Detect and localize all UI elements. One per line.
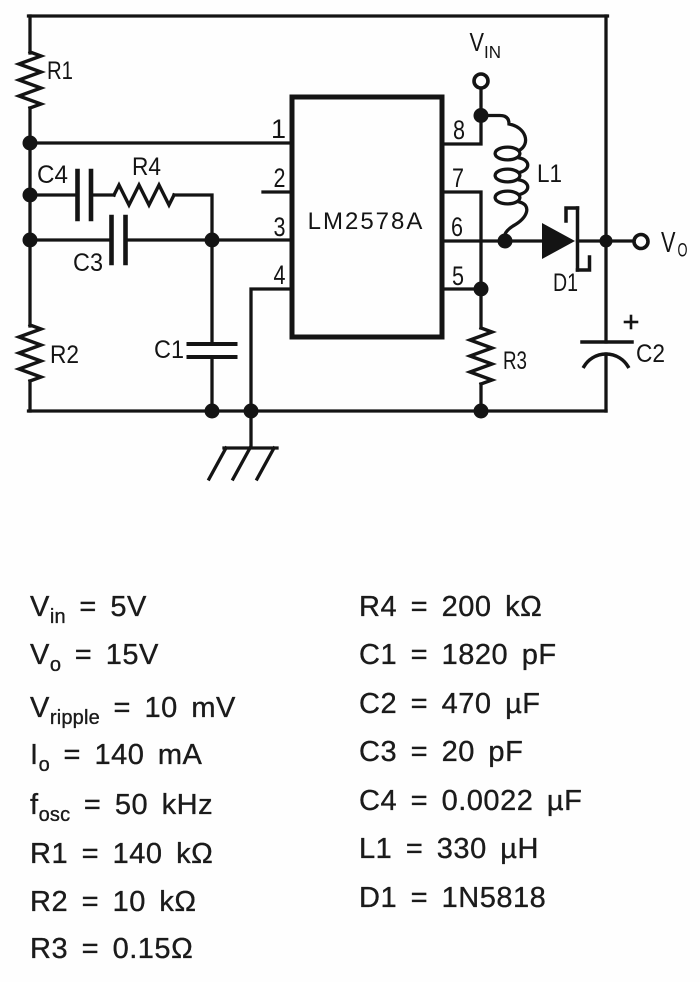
wire: bottom rail xyxy=(29,409,607,412)
svg-text:R3: R3 xyxy=(503,347,527,375)
svg-text:LM2578A: LM2578A xyxy=(308,208,425,235)
svg-text:C2: C2 xyxy=(636,340,665,368)
svg-text:C3: C3 xyxy=(73,249,103,277)
svg-text:C1: C1 xyxy=(154,336,184,364)
resistor R3 xyxy=(479,289,482,328)
node: junction diode / right rail / Vo xyxy=(600,235,613,248)
resistor R2 xyxy=(19,325,41,381)
wire: pin 4 to ground rail xyxy=(251,289,290,411)
svg-text:6: 6 xyxy=(451,212,463,242)
wire: pin 8 to Vin node xyxy=(444,115,481,144)
resistor R4 xyxy=(114,185,174,205)
node: junction R3 / bottom rail xyxy=(474,404,489,419)
wire: left rail C4 node to C3 node xyxy=(28,195,31,240)
node: junction R1/pin1 xyxy=(23,136,38,151)
ground xyxy=(249,411,252,447)
svg-text:8: 8 xyxy=(453,115,465,145)
svg-text:1: 1 xyxy=(271,114,286,144)
svg-text:3: 3 xyxy=(274,212,286,242)
inductor L1 xyxy=(481,116,528,241)
node: junction C1 / bottom rail xyxy=(205,404,220,419)
capacitor C2 (polarized) xyxy=(582,340,632,344)
resistor R1 xyxy=(19,52,41,108)
wire: left rail C3 node to R2 xyxy=(28,240,31,326)
svg-text:7: 7 xyxy=(452,163,464,193)
wire: top rail xyxy=(29,14,608,17)
node: junction Vin / pin8 / L1 xyxy=(474,108,489,123)
wire: R2 bottom to bottom rail xyxy=(28,381,31,411)
wire: pin 2 stub xyxy=(263,190,292,193)
capacitor C3 xyxy=(30,238,109,241)
svg-text:C4: C4 xyxy=(37,161,68,189)
svg-text:R2: R2 xyxy=(50,341,79,369)
capacitor C4 xyxy=(30,193,75,196)
wire: R1 bottom to feedback node xyxy=(28,108,31,143)
terminal VO xyxy=(606,239,633,242)
svg-text:V: V xyxy=(470,27,485,57)
wire: pin 1 feedback line xyxy=(30,141,290,144)
wire: pin 6 to diode xyxy=(444,239,542,242)
wire: left rail node to C4 node xyxy=(28,143,31,195)
node: junction L1 / pin 6 xyxy=(498,234,513,249)
node: junction pin4 / ground / bottom rail xyxy=(244,404,259,419)
svg-text:2: 2 xyxy=(274,163,286,193)
terminal VIN xyxy=(474,74,488,88)
value list: right column xyxy=(359,590,542,624)
svg-text:V: V xyxy=(661,227,676,259)
svg-text:O: O xyxy=(678,241,688,262)
wire: pin 5 xyxy=(444,287,481,290)
node: junction left rail / C4 xyxy=(23,188,38,203)
svg-text:5: 5 xyxy=(452,261,464,291)
wire: right rail Vo node to C2 xyxy=(604,241,607,342)
node: junction pin5 / pin7 wire / R3 xyxy=(474,282,489,297)
svg-text:IN: IN xyxy=(484,42,501,62)
IC U1 LM2578A (regulator body) xyxy=(292,97,442,337)
wire: right rail top to Vo node xyxy=(604,16,607,241)
value list: left column xyxy=(30,590,147,624)
svg-text:R4: R4 xyxy=(132,153,161,181)
wire: R4 to corner down to C3 node xyxy=(174,195,212,240)
diode D1 (schottky) xyxy=(542,223,575,259)
wire: pin 7 down to pin 5 xyxy=(444,192,481,289)
svg-text:D1: D1 xyxy=(553,269,578,297)
node: junction left rail / C3 row xyxy=(23,233,38,248)
wire: left rail top to R1 xyxy=(28,16,31,53)
capacitor C1 xyxy=(210,240,213,344)
svg-text:R1: R1 xyxy=(47,57,73,85)
node: junction C3/R4/C1 xyxy=(205,233,220,248)
svg-text:L1: L1 xyxy=(537,160,562,188)
wire: C3 node to IC pin 3 xyxy=(212,238,290,241)
svg-text:4: 4 xyxy=(274,260,286,290)
